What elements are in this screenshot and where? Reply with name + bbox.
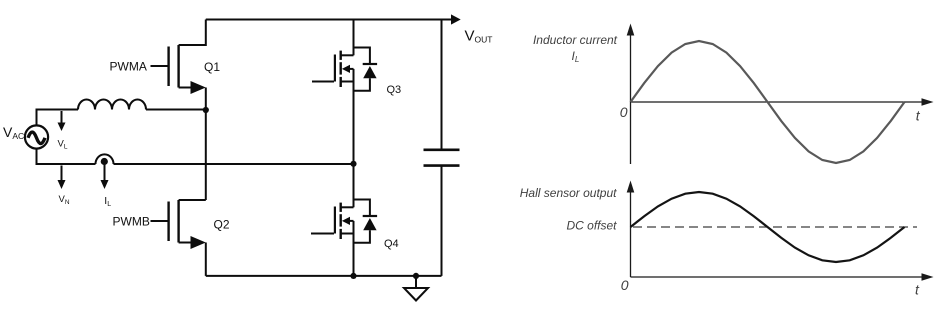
svg-text:IL: IL xyxy=(572,49,580,64)
current sensor hump on neutral wire xyxy=(96,154,114,164)
plot 2: hall sensor output xyxy=(631,192,923,277)
inductor L xyxy=(78,100,146,110)
plot1 x-axis arrowhead xyxy=(922,98,934,106)
arrow IL xyxy=(101,161,109,189)
svg-text:Q3: Q3 xyxy=(387,84,402,96)
diode D4 (body diode of Q4) xyxy=(354,200,378,243)
svg-text:Inductor current: Inductor current xyxy=(533,33,618,47)
svg-text:VAC: VAC xyxy=(3,124,24,141)
svg-text:PWMA: PWMA xyxy=(110,60,147,74)
svg-text:t: t xyxy=(915,282,920,298)
wire: VAC bottom lead xyxy=(37,149,96,164)
plot1 x-axis xyxy=(631,101,923,103)
node: ground junction on bottom rail xyxy=(413,273,419,279)
wire: VAC top lead xyxy=(37,110,79,126)
wire: neutral to Q3/Q4 midpoint xyxy=(114,163,354,165)
DC offset dashed line xyxy=(633,226,917,228)
svg-text:Q1: Q1 xyxy=(204,60,220,74)
arrow VOUT xyxy=(451,14,461,24)
capacitor C1 top lead xyxy=(441,20,443,150)
capacitor C1 xyxy=(424,150,460,166)
plot2 y-axis xyxy=(630,192,632,277)
svg-text:IL: IL xyxy=(104,195,111,208)
wire: inductor to half-bridge midpoint xyxy=(146,109,206,111)
svg-text:Q4: Q4 xyxy=(384,238,399,250)
transistor Q4 xyxy=(311,203,354,239)
plot2 x-axis arrowhead xyxy=(922,273,934,281)
arrow VL xyxy=(58,111,66,131)
svg-text:t: t xyxy=(916,108,921,124)
node: Q1/Q2 midpoint junction xyxy=(203,107,209,113)
svg-text:0: 0 xyxy=(620,104,628,120)
svg-text:Q2: Q2 xyxy=(214,218,230,232)
node: current sense point IL xyxy=(101,158,108,165)
plot2 y-axis arrowhead xyxy=(627,181,635,193)
plot2 x-axis xyxy=(631,276,923,278)
svg-text:VN: VN xyxy=(59,194,70,206)
AC source VAC xyxy=(25,125,48,148)
ground xyxy=(404,276,428,301)
wire: bottom rail xyxy=(206,275,442,277)
svg-text:PWMB: PWMB xyxy=(113,215,150,229)
svg-text:DC offset: DC offset xyxy=(566,219,617,233)
node: Q3/Q4 midpoint junction xyxy=(350,161,356,167)
svg-text:0: 0 xyxy=(621,277,629,293)
svg-text:VOUT: VOUT xyxy=(465,28,493,45)
transistor Q3 xyxy=(312,51,354,87)
transistor Q2 xyxy=(151,200,206,276)
svg-text:Hall sensor output: Hall sensor output xyxy=(520,186,617,200)
wire: Q4 drain to midpoint xyxy=(353,164,355,208)
svg-text:VL: VL xyxy=(58,138,68,150)
wire: Q4 source to bottom rail xyxy=(353,221,355,276)
transistor Q1 xyxy=(151,20,206,111)
diode D3 (body diode of Q3) xyxy=(354,48,378,91)
arrow VN xyxy=(58,166,66,190)
plot1 y-axis xyxy=(630,35,632,164)
curve: inductor current sine xyxy=(631,41,905,163)
wire: half-bridge leg Q1 source to Q2 drain xyxy=(205,110,207,200)
wire: top rail to VOUT xyxy=(206,19,451,21)
curve: hall sensor output sine xyxy=(631,192,905,262)
node: Q4 source / bottom rail junction xyxy=(350,273,356,279)
plot 1: inductor current xyxy=(631,35,923,164)
wire: Q3 drain to top rail xyxy=(353,20,355,56)
wire: Q3 source to Q3/Q4 midpoint xyxy=(353,69,355,164)
capacitor C1 bottom lead xyxy=(441,166,443,276)
plot1 y-axis arrowhead xyxy=(627,24,635,36)
